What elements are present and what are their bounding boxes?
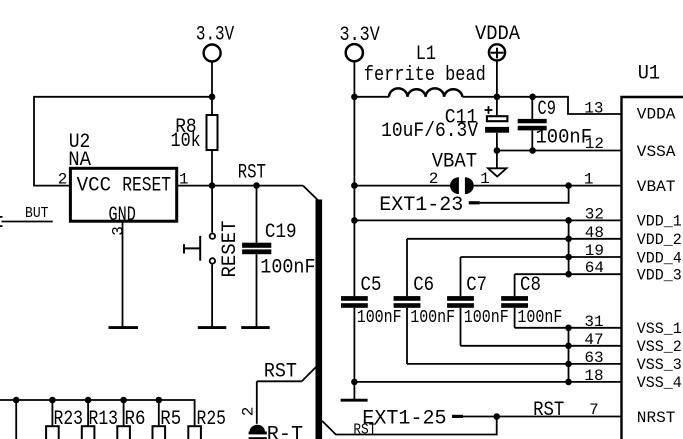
wire VBAT row right <box>474 185 622 187</box>
svg-text:C7: C7 <box>466 274 487 297</box>
wire C9 top <box>531 97 533 119</box>
op-amp U2 box (reset IC) <box>70 168 176 221</box>
svg-text:C19: C19 <box>265 221 297 244</box>
wire left stub down <box>15 400 17 439</box>
svg-text:VCC: VCC <box>77 174 112 197</box>
svg-text:100nF: 100nF <box>260 256 315 279</box>
svg-text:ferrite bead: ferrite bead <box>364 64 486 87</box>
wire RST to pushbutton <box>211 186 213 233</box>
wire lead R13 <box>87 400 89 426</box>
svg-text:31: 31 <box>584 313 603 331</box>
pushbutton RESET contact bottom <box>210 258 215 263</box>
wire VSS_1 row <box>515 327 622 329</box>
wire VDD_3 row <box>515 273 622 275</box>
node junction VDD_3 <box>565 271 572 278</box>
connector EXT1-25 pad dash <box>452 415 463 418</box>
wire lead R6 <box>123 400 125 426</box>
capacitor C7 plates <box>447 296 474 308</box>
wire VDD tie vertical <box>568 220 570 274</box>
wire VDD_2 row <box>407 238 622 240</box>
node junction VSS_3 <box>565 361 572 368</box>
svg-text:2: 2 <box>429 170 439 188</box>
svg-text:18: 18 <box>584 367 603 385</box>
node junction VDD_2 <box>565 236 572 243</box>
capacitor C11 plus mark <box>485 106 493 114</box>
svg-text:100nF: 100nF <box>357 308 402 328</box>
node junction VSSA/C9 <box>529 147 536 154</box>
svg-text:10k: 10k <box>171 130 201 153</box>
svg-text:47: 47 <box>584 331 603 349</box>
wire C7 lead up <box>460 257 462 296</box>
ground bar under U2 <box>109 326 139 329</box>
wire VSS tie vertical <box>568 328 570 382</box>
capacitor C8 plates <box>501 296 528 308</box>
wire C7 lead down <box>460 308 462 346</box>
IC U1 box edge <box>622 97 683 439</box>
wire to analog ground <box>496 150 498 168</box>
wire R8 to RST node <box>211 150 213 186</box>
svg-text:VDD_4: VDD_4 <box>637 249 682 267</box>
svg-text:U1: U1 <box>638 62 660 85</box>
svg-text:VDD_3: VDD_3 <box>637 267 682 285</box>
pushbutton RESET actuator <box>184 236 200 261</box>
svg-text:C9: C9 <box>538 98 556 121</box>
svg-text:C6: C6 <box>413 274 434 297</box>
node junction VDDA/C11 <box>494 94 501 101</box>
wire VSS_2 row <box>461 345 622 347</box>
net BUT wire <box>2 221 53 223</box>
capacitor C6 plates <box>394 296 421 308</box>
svg-text:3.3V: 3.3V <box>340 24 381 47</box>
node junction at R13 <box>85 397 92 404</box>
node junction VBAT/EXT1-23 <box>565 182 572 189</box>
svg-text:R6: R6 <box>125 408 146 431</box>
wire RST horizontal run <box>212 185 303 187</box>
capacitor C19 plates <box>242 243 271 255</box>
wire RST to C19 <box>256 186 258 243</box>
wire NRST to bus <box>322 417 497 435</box>
svg-text:RESET: RESET <box>122 174 171 197</box>
svg-text:R23: R23 <box>54 408 84 431</box>
svg-text:C8: C8 <box>520 274 541 297</box>
node junction at R6 <box>120 397 127 404</box>
diode D (VBAT) half-discs <box>450 177 474 194</box>
ground triangle (analog) <box>488 168 507 176</box>
svg-text:VSSA: VSSA <box>637 143 676 161</box>
wire to U2 VCC <box>34 97 212 186</box>
svg-text:R25: R25 <box>197 408 227 431</box>
svg-text:EXT1-23: EXT1-23 <box>379 194 463 217</box>
svg-text:VDD_1: VDD_1 <box>637 213 682 231</box>
wire NRST row <box>463 416 622 418</box>
wire C9 to VSSA row <box>531 130 533 150</box>
svg-text:7: 7 <box>589 401 599 419</box>
svg-text:19: 19 <box>585 242 604 260</box>
wire L1 to VDDA pin corner <box>462 97 621 114</box>
node junction RST at C19 <box>253 182 260 189</box>
wire VSS_4 row <box>354 381 621 383</box>
svg-text:2: 2 <box>58 171 68 189</box>
svg-text:RESET: RESET <box>219 221 242 278</box>
resistor R5 body <box>153 426 166 439</box>
svg-text:R-T: R-T <box>267 424 303 439</box>
node junction VDD_1 <box>565 217 572 224</box>
svg-text:RST: RST <box>533 399 564 422</box>
svg-text:BUT: BUT <box>25 206 49 222</box>
svg-text:VSS_4: VSS_4 <box>637 374 682 392</box>
svg-text:64: 64 <box>585 259 604 277</box>
wire lead R23 <box>51 400 53 426</box>
button R-T dome <box>250 425 265 432</box>
svg-text:3: 3 <box>110 226 128 236</box>
resistor R23 body <box>46 426 59 439</box>
node junction RST at R8 <box>209 182 216 189</box>
node junction VSS_4 <box>565 379 572 386</box>
node junction VSSA/C11 <box>494 147 501 154</box>
node junction at left stub <box>13 397 20 404</box>
wire VSS_3 row <box>407 363 622 365</box>
bus RST vertical thick bar <box>316 200 323 439</box>
svg-text:R13: R13 <box>89 408 119 431</box>
svg-text:32: 32 <box>585 205 604 223</box>
wire resistor-row horizontal bus <box>0 400 195 426</box>
svg-text:100nF: 100nF <box>410 308 455 328</box>
svg-text:2: 2 <box>239 407 257 417</box>
supply 3.3V (left) circle symbol <box>204 45 221 62</box>
wire to C11 <box>496 97 498 115</box>
wire bus to R-T branch diagonal <box>302 367 316 381</box>
node junction VSS_2 <box>565 343 572 350</box>
wire R-T branch vertical <box>256 381 258 424</box>
node junction 3.3V rail / U2 VCC branch <box>209 94 216 101</box>
wire rail below C5 to ground <box>353 308 355 400</box>
wire 3.3V rail down to C5 <box>353 62 355 297</box>
wire EXT1-23 to VBAT net <box>480 186 569 203</box>
svg-text:RST: RST <box>264 360 297 383</box>
capacitor C5 plates <box>341 296 368 308</box>
svg-text:VDD_2: VDD_2 <box>637 231 682 249</box>
wire C6 lead down <box>406 308 408 364</box>
net BUT off-page ticks <box>0 217 3 226</box>
node junction at R23 <box>49 397 56 404</box>
svg-text:C5: C5 <box>361 274 382 297</box>
svg-text:VSS_1: VSS_1 <box>637 320 682 338</box>
node junction rail/VDD_1 row <box>351 217 358 224</box>
node junction NRST <box>493 413 500 420</box>
ground bar under C19 <box>241 326 270 329</box>
wire VSSA row <box>497 150 622 152</box>
inductor L1 humps <box>389 88 462 96</box>
svg-text:48: 48 <box>585 224 604 242</box>
svg-text:VBAT: VBAT <box>432 150 477 173</box>
wire lead R5 <box>158 400 160 426</box>
supply 3.3V (right) circle symbol <box>346 44 363 61</box>
capacitor C9 plates <box>518 119 547 131</box>
resistor R8 body <box>207 115 218 150</box>
svg-text:RST: RST <box>353 423 376 439</box>
resistor R25 body <box>188 426 201 439</box>
wire VDD_1 row <box>354 219 621 221</box>
node junction rail/VBAT row <box>351 182 358 189</box>
svg-text:100nF: 100nF <box>464 308 509 328</box>
wire R-T branch horizontal <box>257 380 302 382</box>
svg-text:VDDA: VDDA <box>475 23 521 46</box>
wire C11 to VSSA row <box>496 133 498 151</box>
svg-text:R5: R5 <box>160 408 181 431</box>
svg-text:VDDA: VDDA <box>637 105 676 123</box>
wire VBAT row left <box>354 185 450 187</box>
wire pushbutton to ground <box>211 265 213 328</box>
wire U2 pin1 to RST junction <box>178 185 212 187</box>
svg-text:100nF: 100nF <box>517 308 562 328</box>
svg-text:63: 63 <box>584 349 603 367</box>
node junction C9 top <box>529 94 536 101</box>
connector EXT1-23 pad dash <box>469 201 480 204</box>
node junction rail/VSS_4 row <box>351 379 358 386</box>
svg-text:3.3V: 3.3V <box>196 24 235 47</box>
pushbutton RESET contact top <box>210 234 215 239</box>
wire C19 to ground <box>256 254 258 327</box>
supply VDDA circle symbol with plus <box>489 44 505 60</box>
node junction at R5 <box>156 397 163 404</box>
svg-text:NA: NA <box>68 149 91 172</box>
wire rail to L1 <box>354 96 389 98</box>
wire U2 GND pin to ground <box>122 222 124 328</box>
svg-text:RST: RST <box>238 162 266 185</box>
svg-text:12: 12 <box>585 135 604 153</box>
button R-T pad bars <box>249 432 267 439</box>
ground bar under pushbutton <box>198 326 227 329</box>
wire VDD_4 row <box>461 256 622 258</box>
node junction VDD_4 <box>565 254 572 261</box>
svg-text:100nF: 100nF <box>536 126 593 149</box>
wire C8 lead down <box>514 308 516 328</box>
node junction VSS_1 <box>565 325 572 332</box>
wire C6 lead up <box>406 239 408 296</box>
svg-text:NRST: NRST <box>637 409 676 427</box>
ground bar under rail <box>341 399 368 402</box>
wire C8 lead up <box>514 274 516 296</box>
svg-text:1: 1 <box>584 171 594 189</box>
wire VDDA down to rail <box>496 60 498 96</box>
capacitor C11 plates (polarized) <box>485 116 509 133</box>
svg-text:VSS_3: VSS_3 <box>637 356 682 374</box>
resistor R6 body <box>117 426 130 439</box>
svg-text:L1: L1 <box>416 43 436 66</box>
svg-text:VBAT: VBAT <box>637 178 676 196</box>
wire RST diagonal into bus <box>303 186 319 201</box>
svg-text:VSS_2: VSS_2 <box>637 338 682 356</box>
svg-text:13: 13 <box>584 99 603 117</box>
resistor R13 body <box>82 426 95 439</box>
wire 3.3V to R8 <box>211 62 213 116</box>
node junction rail/inductor <box>351 94 358 101</box>
svg-text:10uF/6.3V: 10uF/6.3V <box>381 120 479 143</box>
